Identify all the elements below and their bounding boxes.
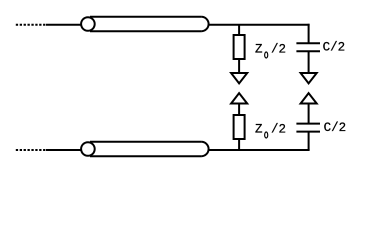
- wire: bottom capacitor to arrow: [308, 103, 310, 124]
- value label Z0/2 for resistor R2: subscript 0: [265, 132, 268, 138]
- wire: TL2 output to branches: [209, 149, 310, 151]
- svg-text:C/2: C/2: [323, 41, 346, 55]
- svg-text:Z: Z: [255, 43, 263, 57]
- wire: TL1 output to branches: [209, 24, 310, 26]
- wire: bottom resistor to arrow: [238, 103, 240, 115]
- wire: top capacitor to arrow: [308, 51, 310, 72]
- transmission line TL1 (top): [81, 17, 209, 31]
- wire: top resistor branch lead: [238, 25, 240, 36]
- arrow terminal (bottom resistor, pointing up): [231, 93, 247, 103]
- wire: top capacitor branch lead: [308, 24, 310, 43]
- svg-text:/2: /2: [271, 123, 286, 137]
- arrow terminal (top capacitor, pointing down): [301, 73, 317, 83]
- wire: bottom lead into TL2: [46, 149, 81, 151]
- arrow terminal (top resistor, pointing down): [231, 73, 247, 83]
- svg-text:/2: /2: [271, 43, 286, 57]
- wire: bottom resistor branch lead: [238, 139, 240, 151]
- arrow terminal (bottom capacitor, pointing up): [301, 93, 317, 103]
- resistor R1 (Z0/2, top) body: [234, 35, 245, 59]
- transmission line TL2 (bottom): [81, 142, 208, 156]
- wire: top lead into TL1: [46, 24, 81, 26]
- svg-text:C/2: C/2: [324, 121, 347, 135]
- resistor R2 (Z0/2, bottom) body: [234, 115, 245, 139]
- wire: top-left dashed lead: [16, 24, 47, 26]
- wire: top resistor to arrow: [238, 59, 240, 73]
- capacitor C2 (C/2, bottom) plates: [296, 124, 320, 132]
- value label Z0/2 for resistor R1: subscript 0: [265, 52, 268, 58]
- wire: bottom capacitor branch lead: [308, 132, 310, 151]
- svg-text:Z: Z: [255, 123, 263, 137]
- wire: bottom-left dashed lead: [16, 149, 47, 151]
- capacitor C1 (C/2, top) plates: [296, 43, 320, 51]
